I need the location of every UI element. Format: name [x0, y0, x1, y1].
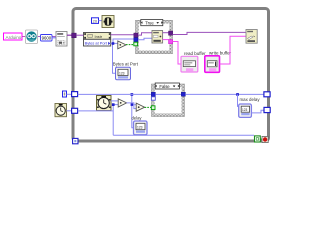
svg-text:9600: 9600 [42, 36, 52, 41]
wire clock to subtract [111, 100, 118, 102]
boolean wire [126, 44, 134, 46]
svg-text:write buffer: write buffer [209, 51, 232, 56]
svg-text:max delay: max delay [240, 97, 261, 102]
junction [112, 42, 115, 45]
wire subtract to compare [127, 103, 137, 109]
wire down to max delay [238, 94, 239, 106]
VISA resource constant "Arduino" [4, 33, 23, 40]
wire VISA to read [138, 33, 152, 35]
wire delay vertical [132, 94, 134, 127]
shift register right A [264, 92, 270, 97]
svg-text:123: 123 [119, 71, 125, 75]
svg-text:123: 123 [242, 108, 248, 112]
tunnel VISA (case1 left) [134, 33, 138, 37]
wire start tick pass-through left [78, 93, 152, 95]
compare greater or equal [136, 103, 144, 111]
write buffer control [205, 56, 220, 73]
boolean wire to case 2 [145, 106, 152, 108]
svg-text:20: 20 [93, 18, 98, 23]
svg-text:Arduino: Arduino [6, 35, 22, 40]
case 1 selector True [141, 20, 163, 26]
svg-text:Bytes at Port: Bytes at Port [85, 41, 108, 46]
svg-text:False: False [159, 84, 170, 89]
max delay control [239, 104, 252, 117]
VISA Configure Serial Port icon [56, 32, 67, 47]
case 2 selector False [155, 83, 179, 89]
Wait Until Next ms Multiple (metronome) [102, 16, 114, 28]
tunnel (case2 left) [151, 92, 155, 96]
Tick Count clock (inside) [97, 96, 112, 111]
wire [67, 93, 72, 95]
wire VISA into property node [76, 34, 83, 36]
wire [22, 36, 26, 38]
Tick Count clock (outside) [55, 104, 67, 117]
wire bytes count out [111, 42, 118, 44]
shift register right B [264, 107, 270, 112]
svg-text:read buffer: read buffer [184, 51, 206, 56]
loop condition terminal [262, 136, 268, 142]
wire VISA reference out [111, 34, 134, 36]
tunnel (case2 right) [181, 92, 185, 96]
numeric constant 9600 [41, 35, 53, 42]
junction [131, 103, 134, 106]
Bytes at Port indicator [116, 67, 131, 79]
tunnel (case2 left, unwired) [151, 97, 155, 100]
junction [236, 93, 239, 96]
VISA Read icon [152, 31, 163, 44]
selector terminal ? [151, 106, 155, 110]
svg-text:Bytes at Port: Bytes at Port [113, 62, 139, 67]
svg-text:delay: delay [132, 115, 143, 120]
wire VISA to write [173, 32, 246, 34]
boolean stop function [255, 136, 261, 142]
junction [112, 103, 115, 106]
wire bottom run [113, 134, 254, 136]
wire through case 2 [155, 93, 181, 95]
tunnel count (case1 left) [134, 38, 138, 42]
wire [99, 20, 103, 22]
wire count to read [138, 38, 152, 40]
wire branch down to indicator [113, 43, 116, 73]
junction [131, 93, 134, 96]
wire string to read buffer [173, 42, 181, 65]
selector terminal ? [134, 42, 138, 46]
wire to right shift register [185, 93, 264, 95]
wire max delay to shift register [251, 110, 264, 113]
shift register left A [72, 92, 78, 97]
wire vertical down to bottom [112, 105, 114, 136]
wire delay into compare [132, 104, 136, 106]
svg-text:Instr: Instr [95, 34, 103, 39]
greater than 0? [118, 41, 126, 49]
wire branch up to case tunnel [113, 39, 134, 43]
wire write buffer to VISA Write [220, 36, 247, 64]
iteration terminal [73, 138, 78, 143]
property node (Instr / Bytes at Port) [84, 33, 111, 47]
tunnel VISA (case1 right) [169, 31, 173, 35]
wire VISA out [163, 32, 169, 34]
read buffer indicator [181, 56, 198, 72]
wire [52, 37, 56, 39]
tunnel string (case1 right) [169, 40, 173, 44]
numeric constant 20 [92, 18, 99, 24]
svg-text:123: 123 [137, 126, 143, 130]
wire string out [163, 39, 169, 41]
Arduino Init icon [26, 30, 38, 44]
numeric constant 0 [63, 91, 67, 97]
wire VISA resource [67, 34, 72, 36]
delay control [134, 121, 148, 135]
subtract [118, 99, 126, 107]
wire [67, 110, 72, 112]
wire [38, 36, 57, 38]
case structure 1 [136, 20, 173, 53]
wire into subtract [113, 104, 118, 106]
wire start tick [78, 110, 114, 112]
case structure 2 [152, 84, 185, 117]
wire [260, 138, 262, 140]
VISA Write icon [246, 30, 257, 44]
svg-text:True: True [145, 21, 154, 26]
while loop [73, 9, 269, 142]
tunnel (VISA) [72, 33, 77, 38]
shift register left B [72, 108, 78, 113]
